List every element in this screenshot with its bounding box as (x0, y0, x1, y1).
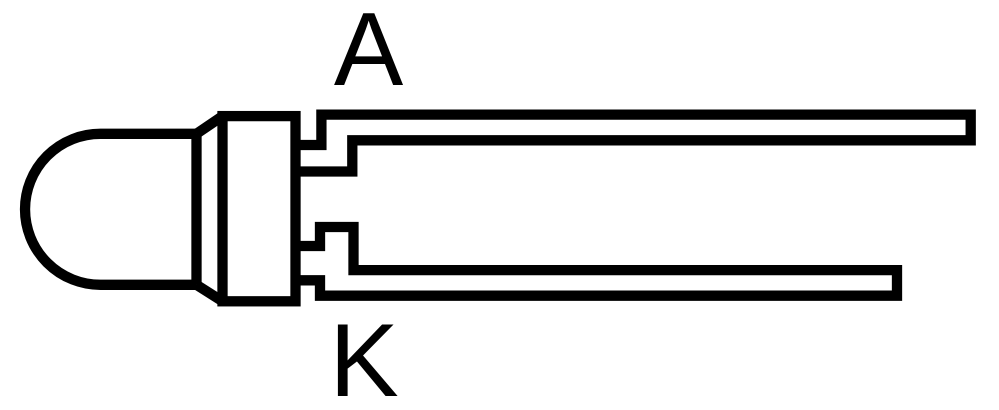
LED dome (epoxy lens capsule) (25, 134, 196, 285)
flange (package base rectangle) (223, 116, 296, 301)
cathode lead (pin K, short lead with crimp) (296, 227, 898, 296)
svg-text:K: K (329, 303, 398, 410)
body cone (trapezoid between dome and flange) (197, 116, 223, 301)
dome end line (191, 134, 201, 285)
svg-text:A: A (334, 0, 404, 108)
anode lead (pin A, long lead) (296, 115, 971, 172)
